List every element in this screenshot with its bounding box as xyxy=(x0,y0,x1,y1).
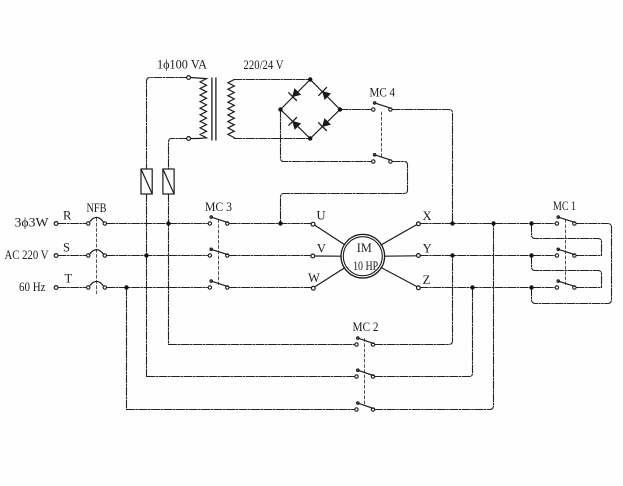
breaker NFB pole R xyxy=(87,217,107,225)
contact MC3 pole S xyxy=(208,248,229,257)
linkage MC3 xyxy=(218,220,220,285)
wire Y row motor to MC1 xyxy=(420,255,555,257)
contact MC4 pole upper xyxy=(372,102,393,112)
linkage MC2 xyxy=(364,339,366,406)
node bridge right vertex xyxy=(338,107,342,111)
wire MC1 Z output stub xyxy=(576,287,601,289)
motor lead U xyxy=(315,225,345,245)
terminal W xyxy=(311,286,315,290)
svg-text:10 HP: 10 HP xyxy=(353,259,378,273)
svg-text:S: S xyxy=(63,241,70,255)
wire S row xyxy=(58,255,311,257)
svg-text:IM: IM xyxy=(357,241,372,255)
contact MC1 pole Y xyxy=(555,248,576,257)
node bridge top vertex xyxy=(308,77,312,81)
node T-branch junction xyxy=(124,285,128,289)
linkage MC1 xyxy=(565,220,567,285)
svg-text:AC 220 V: AC 220 V xyxy=(5,248,49,262)
terminal primary bottom xyxy=(187,137,191,141)
node Y row MC1 step junction xyxy=(529,253,533,257)
breaker NFB pole T xyxy=(87,281,107,289)
wire fuse R branch: primary bottom to fuse to R row to bottom row1 xyxy=(169,139,187,345)
diode D4 bottom-right xyxy=(319,119,331,131)
node Z row row2 junction xyxy=(470,285,474,289)
node X row MC1 step junction xyxy=(529,221,533,225)
contact MC2 pole 2 xyxy=(355,369,375,378)
node S-fuse junction xyxy=(144,253,148,257)
terminal S source xyxy=(54,254,58,258)
contact MC1 pole X xyxy=(555,216,576,225)
wire Z row motor to MC1 xyxy=(420,287,555,289)
svg-text:R: R xyxy=(63,209,72,223)
wire MC1 step X-in down right to Y row xyxy=(532,224,602,256)
transformer T1 primary coil xyxy=(191,78,207,139)
wire T row branch down to bottom row3 xyxy=(126,288,128,410)
svg-text:220/24 V: 220/24 V xyxy=(244,58,284,72)
wire MC1 Y output stub xyxy=(576,255,601,257)
wire MC1 X output to right edge xyxy=(576,223,608,225)
svg-text:T: T xyxy=(65,272,73,286)
wire MC1 step Z-in down right loop up to X out xyxy=(532,224,612,304)
linkage NFB xyxy=(96,218,98,295)
motor lead V xyxy=(315,255,341,257)
svg-text:MC 1: MC 1 xyxy=(553,199,576,213)
contact MC2 pole 3 xyxy=(355,402,375,411)
motor lead Z xyxy=(381,268,417,287)
node R-fuse junction xyxy=(166,221,170,225)
wire X row motor to MC1 xyxy=(420,223,555,225)
wire MC1 step Y-in down right to Z row xyxy=(532,256,602,288)
svg-text:MC 2: MC 2 xyxy=(353,320,379,334)
svg-text:Y: Y xyxy=(423,242,432,256)
contact MC4 pole lower xyxy=(372,154,393,164)
node Y row row1 junction xyxy=(450,253,454,257)
svg-text:X: X xyxy=(423,209,432,223)
wire R row xyxy=(58,223,311,225)
terminal T source xyxy=(54,286,58,290)
node U-line DC junction xyxy=(278,221,282,225)
wire bridge right to MC4 top contact xyxy=(340,109,372,111)
bridge rectifier edges xyxy=(281,80,341,139)
terminal U xyxy=(311,222,315,226)
wire bottom row1 xyxy=(169,256,453,345)
transformer T1 core xyxy=(212,78,216,140)
transformer T1 secondary coil xyxy=(228,80,234,138)
svg-text:3ϕ3W: 3ϕ3W xyxy=(15,215,49,229)
svg-text:MC 4: MC 4 xyxy=(370,85,396,99)
fuse F1 (S phase) xyxy=(141,169,152,194)
node bridge left vertex xyxy=(278,107,282,111)
node X row row3 junction xyxy=(491,221,495,225)
node X row MC4 junction xyxy=(450,221,454,225)
terminal primary top xyxy=(187,76,191,80)
contact MC3 pole R xyxy=(208,216,229,225)
contact MC2 pole 1 xyxy=(355,337,375,346)
wire secondary bottom to bridge xyxy=(234,138,310,140)
svg-text:U: U xyxy=(317,209,326,223)
diode D2 top-right xyxy=(319,88,331,100)
svg-text:MC 3: MC 3 xyxy=(205,200,232,214)
wire MC4 top contact to X row xyxy=(392,110,452,224)
svg-text:V: V xyxy=(317,242,326,256)
LINKAGE dashed mechanical lines xyxy=(97,112,566,406)
motor IM circle xyxy=(341,234,385,278)
svg-text:1ϕ100 VA: 1ϕ100 VA xyxy=(157,58,207,72)
diode D3 bottom-left xyxy=(289,118,301,130)
wire bottom row2 xyxy=(147,288,473,377)
terminal R source xyxy=(54,222,58,226)
wire bridge left vertex down to MC4 lower contact xyxy=(281,110,372,162)
fuse F2 (R phase) xyxy=(163,169,174,194)
svg-text:60 Hz: 60 Hz xyxy=(19,280,46,294)
wire MC4 lower contact return to U line xyxy=(281,162,408,224)
svg-text:NFB: NFB xyxy=(87,201,107,215)
node Z row MC1 step junction xyxy=(529,285,533,289)
wire secondary top to bridge xyxy=(234,79,310,81)
terminal X xyxy=(417,222,421,226)
terminal Z xyxy=(417,286,421,290)
wire bottom row3 xyxy=(127,224,494,410)
terminal Y xyxy=(417,254,421,258)
motor lead X xyxy=(381,225,417,245)
wire fuse S branch: primary top to fuse to S row to bottom row2 xyxy=(147,78,187,377)
wire T row xyxy=(58,287,311,289)
linkage MC4 xyxy=(381,112,383,158)
contact MC3 pole T xyxy=(208,280,229,289)
terminal V xyxy=(311,254,315,258)
svg-text:Z: Z xyxy=(423,273,431,287)
SYMBOLS solid xyxy=(54,76,576,412)
diode D1 top-left xyxy=(289,89,301,101)
contact MC1 pole Z xyxy=(555,280,576,289)
svg-text:W: W xyxy=(308,271,320,285)
motor lead W xyxy=(315,268,345,287)
breaker NFB pole S xyxy=(87,250,107,258)
motor lead Y xyxy=(385,255,417,257)
node bridge bottom vertex xyxy=(308,136,312,140)
